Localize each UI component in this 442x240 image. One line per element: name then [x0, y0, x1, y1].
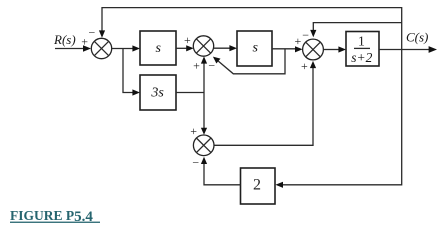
wire branch from node after S1 down into block 3s [123, 49, 140, 96]
svg-text:+: + [301, 59, 308, 73]
summing junction S2 [193, 36, 213, 56]
wire S1 output to block s (G1) [112, 45, 140, 51]
wire G3 output into summer S3 [272, 46, 303, 52]
wire bottom feedback from pickoff node down and left into block H 2 [275, 50, 401, 188]
svg-text:+: + [81, 34, 88, 48]
wire G1 output into summer S2 [176, 45, 194, 51]
svg-text:s: s [252, 41, 258, 56]
svg-text:−: − [192, 155, 199, 169]
svg-text:s+2: s+2 [351, 50, 372, 65]
summing junction S1 [91, 38, 111, 58]
block G2 value 3s [140, 75, 176, 110]
svg-text:+: + [295, 34, 302, 48]
svg-text:2: 2 [253, 177, 261, 194]
wire inner top feedback from right vertical into S3 top [310, 23, 402, 38]
svg-text:R(s): R(s) [53, 32, 76, 47]
svg-text:1: 1 [358, 34, 365, 49]
svg-text:−: − [208, 59, 215, 73]
summing junction S3 [303, 39, 324, 60]
wire R(s) input into summer S1 [55, 45, 91, 51]
svg-text:s: s [155, 41, 161, 56]
block G1 value s [140, 31, 176, 65]
block H value 2 [241, 168, 276, 204]
svg-text:+: + [193, 59, 200, 73]
wire outer feedback from node after 1/(s+2) to S1 top [99, 8, 402, 50]
svg-text:−: − [89, 26, 96, 40]
block G3 value s [237, 31, 272, 66]
wire S2 output into block G3 [214, 45, 237, 51]
wire G4 output to C(s) with pickoff node [379, 46, 437, 53]
svg-text:C(s): C(s) [406, 30, 428, 45]
svg-text:3s: 3s [150, 86, 164, 101]
wire junction up into S2 bottom [201, 56, 207, 92]
wire S3 output into block G4 [323, 46, 346, 52]
svg-text:+: + [190, 124, 197, 138]
summing junction S4 [193, 135, 214, 156]
wire S4 output up into S3 bottom [214, 61, 316, 145]
caption FIGURE P5.4 [10, 208, 100, 225]
block G4 value 1/(s+2) [346, 32, 379, 67]
svg-text:+: + [184, 33, 191, 47]
wire G2 output to junction on vertical line [176, 92, 204, 94]
wire junction down into S4 top [201, 93, 207, 135]
wire feedback from node after G3 down, left, diagonal into S2 [213, 49, 285, 74]
wire H output left and up into S4 bottom [201, 157, 241, 185]
